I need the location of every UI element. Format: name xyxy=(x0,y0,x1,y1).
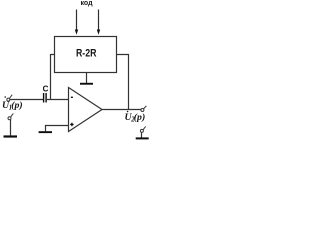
ground (input) xyxy=(4,135,18,137)
svg-text:R-2R: R-2R xyxy=(76,48,97,60)
capacitor C plates xyxy=(43,93,47,103)
terminal input lower xyxy=(8,113,13,119)
svg-text:U2(p): U2(p) xyxy=(125,112,146,124)
wire feedback right (box to output node) xyxy=(117,55,129,111)
svg-text:код: код xyxy=(80,0,93,7)
label U2(p) xyxy=(125,111,146,124)
terminal output xyxy=(141,106,147,112)
wire inverting node (capacitor to op-amp) xyxy=(47,99,69,101)
label U1(p) xyxy=(2,96,23,111)
ground (output) xyxy=(136,137,149,139)
op-amp inverting mark - xyxy=(71,97,73,98)
terminal input upper xyxy=(7,95,12,101)
wire output xyxy=(102,109,141,111)
label C xyxy=(43,84,49,93)
svg-text:C: C xyxy=(43,84,49,93)
wire feedback left (box to inverting node) xyxy=(51,55,56,101)
label "код" (digital code input) xyxy=(80,0,93,7)
block R-2R ladder DAC xyxy=(55,37,117,73)
wire input (terminal to capacitor) xyxy=(10,99,43,101)
wire non-inverting input to ground xyxy=(46,126,69,132)
op-amp U1 triangle xyxy=(69,88,103,132)
svg-text:U1(p): U1(p) xyxy=(2,100,23,112)
ground (non-inverting input) xyxy=(39,131,52,133)
arrow code bit 1 xyxy=(75,10,78,35)
terminal output lower xyxy=(140,126,145,132)
op-amp non-inverting mark + xyxy=(70,123,73,127)
wire output lower to ground xyxy=(141,132,143,137)
wire R-2R ground stem xyxy=(86,73,88,84)
arrow code bit 2 xyxy=(97,10,100,35)
ground (R-2R bottom) xyxy=(80,83,93,85)
wire input lower to ground xyxy=(10,120,12,136)
